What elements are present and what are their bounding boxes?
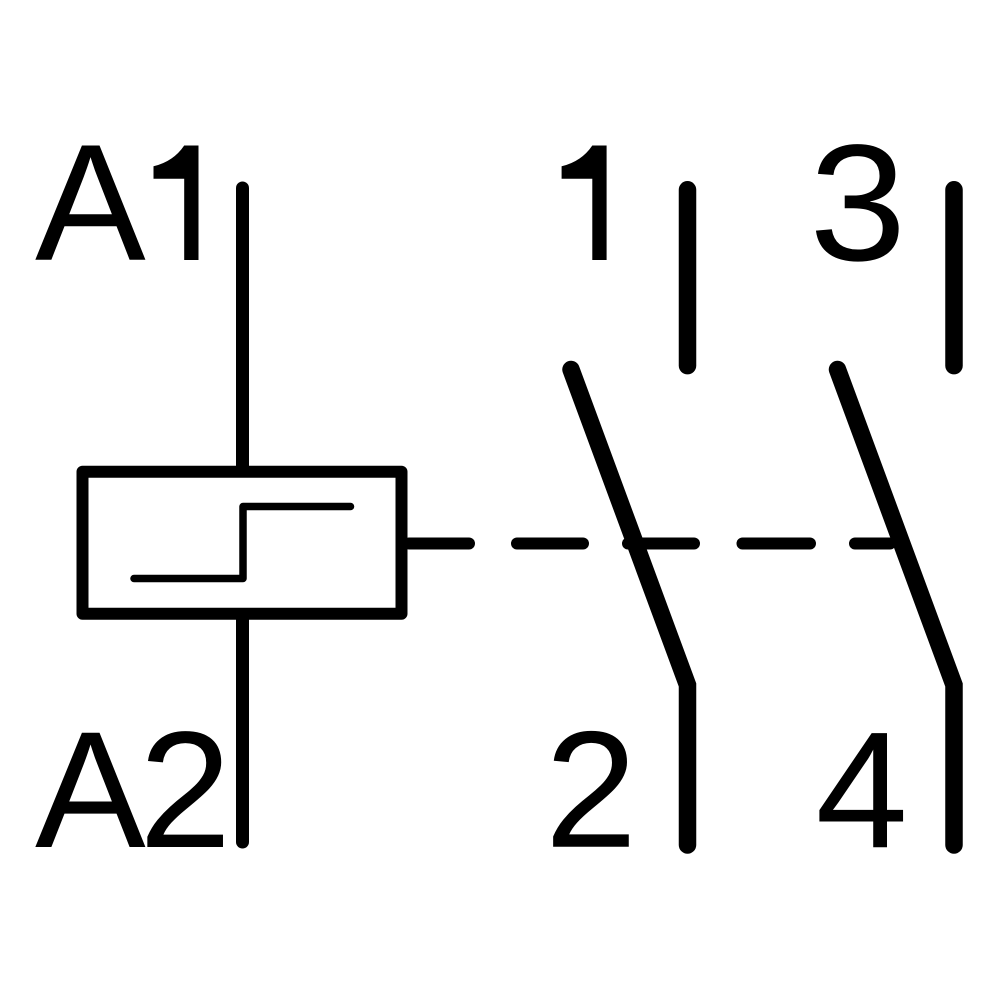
- svg-text:4: 4: [816, 698, 908, 883]
- svg-text:3: 3: [809, 111, 906, 296]
- svg-text:2: 2: [545, 698, 637, 883]
- svg-text:2: 2: [139, 698, 231, 883]
- svg-text:A: A: [35, 111, 146, 296]
- svg-text:A: A: [35, 698, 146, 883]
